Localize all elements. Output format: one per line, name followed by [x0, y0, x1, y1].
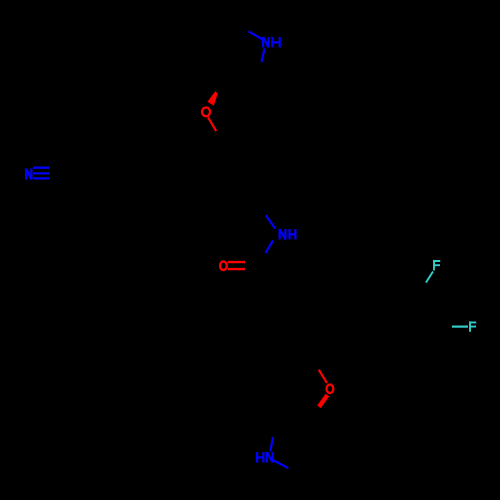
- bond O down to aryl C (top): [208, 117, 216, 131]
- C=O double bond: [228, 262, 245, 269]
- bond aryl C to amide N: [266, 215, 275, 228]
- bond F1 to aryl C: [426, 272, 433, 283]
- carbonyl O label: [220, 261, 227, 270]
- bond to NH (top) from ring C2: [249, 31, 263, 39]
- bond ring C to HN (bottom) from above: [270, 437, 273, 451]
- nitrile triple bond: [33, 168, 49, 179]
- bond from NH (top) down to ring C5: [262, 49, 265, 63]
- bond O up to aryl C (bottom): [319, 370, 327, 383]
- fluorine F1 label: [433, 260, 440, 270]
- pyrrolidine NH (top) label: [263, 37, 280, 48]
- nitrile N label: [26, 169, 31, 180]
- ether O (bottom) label: [327, 385, 334, 394]
- pyrrolidine HN (bottom) label: [257, 452, 273, 463]
- wedge bond O to pyrrolidine C3 (bottom): [319, 395, 327, 407]
- bond F2 to aryl C: [452, 326, 468, 328]
- wedge bond O to pyrrolidine C3 (top): [208, 91, 218, 106]
- ether O (top) label: [202, 108, 210, 117]
- bond amide N to carbonyl C: [266, 241, 274, 254]
- fluorine F2 label: [469, 321, 476, 331]
- bond HN (bottom) to ring C down-right: [272, 460, 288, 469]
- amide NH label: [280, 229, 296, 240]
